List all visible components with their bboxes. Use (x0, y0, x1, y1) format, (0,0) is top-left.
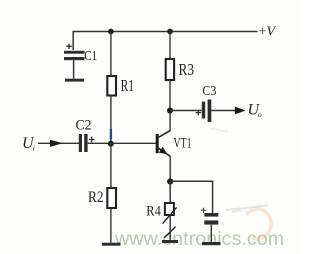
wire node to C3 (170, 110, 202, 112)
wire C2 to base (88, 142, 156, 144)
ground (R2) (102, 243, 121, 246)
wire input with arrow (38, 142, 79, 144)
wire R3 top lead (169, 32, 171, 60)
wire C1 top stub (72, 32, 74, 51)
wire R1 bottom to base node (110, 96, 112, 144)
faint scan smudges (226, 206, 268, 211)
ground (C1) (65, 79, 84, 82)
wire C3 output with arrow (211, 110, 236, 112)
capacitor bypass (electrolytic) (201, 208, 218, 225)
resistor R3 (166, 59, 194, 80)
capacitor C1 (64, 44, 97, 64)
wire collector up (169, 111, 171, 131)
transistor VT1 (156, 131, 192, 157)
svg-text:+V: +V (259, 25, 277, 40)
wire emitter node down to R4 (169, 182, 171, 204)
svg-text:VT1: VT1 (174, 136, 192, 152)
svg-text:R4: R4 (146, 204, 161, 220)
node dot base junction (108, 141, 114, 147)
ground (bypass cap) (202, 242, 221, 245)
wire R2 bottom lead (110, 208, 112, 243)
resistor R4 (adjustable) (146, 203, 176, 238)
capacitor C3 (196, 83, 217, 122)
ground (R4) (162, 240, 178, 243)
svg-text:C2: C2 (76, 118, 92, 134)
svg-text:R3: R3 (179, 60, 195, 79)
node dot collector/C3 (167, 108, 173, 114)
resistor R2 (88, 188, 116, 208)
svg-text:R2: R2 (88, 189, 104, 206)
wire R4 bottom lead (169, 215, 171, 240)
wire top supply rail (73, 31, 258, 33)
wire emitter node to bypass cap (170, 181, 212, 213)
capacitor C2 (76, 118, 95, 153)
node dot rail-R3 (167, 29, 173, 35)
svg-text:Uo: Uo (248, 102, 262, 119)
wire base node down to R2 (110, 144, 112, 188)
wire R3 bottom to collector node (169, 80, 171, 111)
svg-text:R1: R1 (121, 76, 135, 95)
wire emitter down (169, 156, 171, 181)
blue mark above base node (110, 129, 112, 139)
wire bypass cap bottom lead (210, 225, 212, 242)
svg-text:C3: C3 (202, 83, 216, 98)
svg-text:C1: C1 (84, 49, 97, 64)
resistor R1 (107, 76, 134, 96)
node dot emitter junction (167, 178, 173, 184)
svg-text:Ui: Ui (22, 135, 35, 152)
node dot rail-R1 (108, 29, 114, 35)
wire C1 bottom stub (73, 60, 75, 78)
wire R1 top lead (110, 32, 112, 77)
